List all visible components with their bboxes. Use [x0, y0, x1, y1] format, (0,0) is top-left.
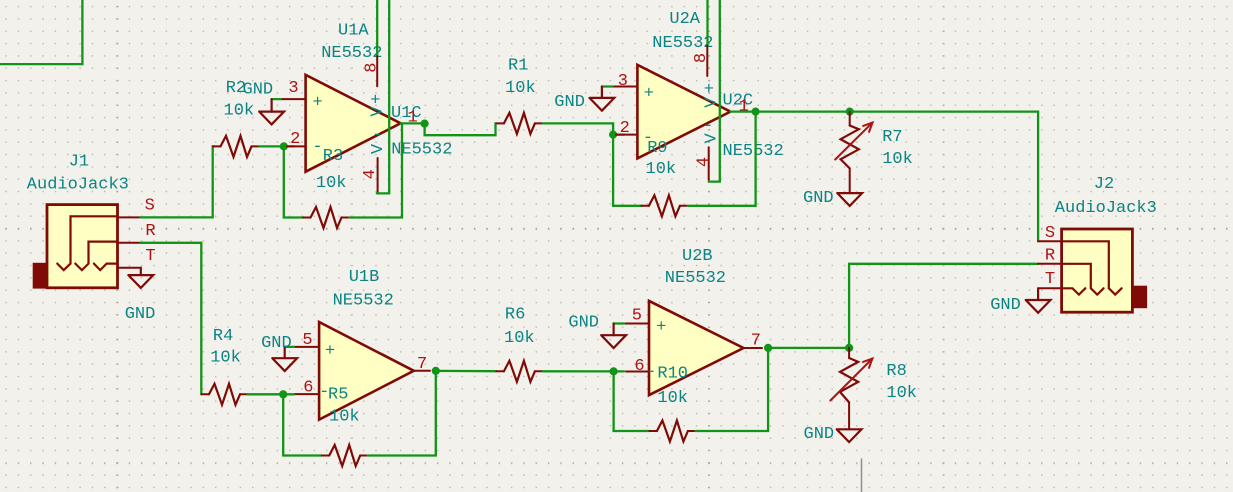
svg-text:GND: GND — [554, 93, 585, 112]
J2 pin T — [1038, 287, 1062, 289]
svg-text:GND: GND — [803, 189, 834, 208]
ground at R8 — [837, 429, 862, 442]
svg-text:1: 1 — [738, 97, 748, 116]
wire R9 to U2A output — [688, 112, 756, 206]
wire J1-R to R4 — [141, 243, 202, 394]
J1 pin S — [118, 216, 141, 218]
svg-text:GND: GND — [261, 334, 292, 353]
svg-text:3: 3 — [618, 72, 628, 91]
svg-text:R5: R5 — [328, 386, 348, 405]
svg-text:-: - — [312, 138, 322, 157]
ground at U2B pin 5 — [612, 324, 614, 336]
svg-text:R: R — [145, 222, 155, 241]
J1 ring contact R — [75, 242, 117, 271]
ground at J1 pin T — [140, 268, 142, 275]
U1B pin 5 (+) — [294, 346, 319, 348]
svg-text:-: - — [372, 126, 382, 145]
svg-text:10k: 10k — [657, 389, 688, 408]
wire V+ rail into U1C pin 8 — [376, 0, 378, 56]
svg-text:2: 2 — [620, 119, 630, 138]
wire U1B output to R6 — [436, 370, 496, 373]
svg-text:1: 1 — [407, 109, 417, 128]
svg-text:NE5532: NE5532 — [665, 269, 726, 288]
node at U1A pin 2 — [280, 142, 288, 150]
resistor R2 — [213, 145, 221, 147]
svg-text:-: - — [703, 117, 713, 136]
svg-text:R6: R6 — [505, 306, 525, 325]
wire top-left corner segment — [0, 0, 82, 64]
svg-text:GND: GND — [568, 314, 599, 333]
wire U1B pin6 node down to R5 — [283, 394, 322, 455]
resistor R10 — [649, 430, 657, 432]
wire U1A output — [401, 122, 425, 124]
J2 sleeve contact T — [1062, 288, 1086, 294]
U1C pin 8 — [376, 56, 378, 86]
node at U1A output — [421, 120, 429, 128]
op-amp U2A — [637, 65, 730, 159]
svg-text:GND: GND — [990, 296, 1021, 315]
R8 bottom lead — [848, 402, 850, 429]
svg-text:NE5532: NE5532 — [723, 142, 784, 161]
svg-text:6: 6 — [634, 357, 644, 376]
svg-text:U2A: U2A — [669, 10, 700, 29]
svg-text:R1: R1 — [508, 57, 528, 76]
ground at J2 pin T — [1037, 288, 1039, 300]
svg-text:GND: GND — [125, 305, 156, 324]
svg-text:J1: J1 — [69, 152, 89, 171]
svg-text:U1B: U1B — [349, 268, 380, 287]
wire R6 to U2B pin6 — [543, 370, 624, 372]
R8 top lead — [848, 348, 850, 358]
U2C pin 4 — [708, 147, 710, 180]
resistor R5 — [322, 455, 330, 457]
connector J2 sleeve block — [1132, 286, 1146, 308]
svg-text:S: S — [1045, 224, 1055, 243]
U1B output pin — [414, 370, 430, 372]
svg-text:R3: R3 — [323, 147, 343, 166]
U2B pin 5 (+) — [624, 323, 649, 325]
op-amp U2B — [649, 301, 744, 395]
R7 top lead — [849, 112, 851, 126]
node at U2A output — [752, 108, 760, 116]
wire J1-S to R2 — [141, 146, 215, 217]
svg-text:4: 4 — [694, 157, 713, 167]
wire R8 tap up to J2 R — [849, 264, 1038, 348]
svg-text:J2: J2 — [1094, 175, 1114, 194]
svg-text:-: - — [646, 363, 656, 382]
svg-text:+: + — [312, 94, 322, 113]
svg-text:10k: 10k — [224, 102, 255, 121]
U1B pin 6 (-) — [294, 393, 319, 395]
wire U2A output to J2 S — [756, 112, 1039, 242]
U1A pin 2 (-) — [287, 145, 306, 147]
svg-text:6: 6 — [303, 379, 313, 398]
connector J1 body — [47, 205, 118, 288]
svg-text:+: + — [325, 342, 335, 361]
svg-text:T: T — [1045, 270, 1055, 289]
wire R3 to U1A output — [350, 123, 403, 217]
resistor R9 — [641, 205, 649, 207]
J1 tip contact S — [57, 216, 117, 270]
resistor R1 — [496, 122, 504, 124]
svg-text:U1A: U1A — [338, 22, 369, 41]
wire R5 to U1B output — [368, 371, 436, 456]
svg-text:NE5532: NE5532 — [321, 44, 382, 63]
svg-text:U2B: U2B — [682, 247, 713, 266]
ground stub wire at U1B pin5 — [285, 346, 294, 348]
node at U2B output — [764, 344, 772, 352]
wire R2 to U1A pin2 — [260, 145, 295, 147]
R7 bottom lead — [849, 168, 851, 193]
wire V- rail to U1C pin 4 — [377, 0, 389, 193]
svg-text:3: 3 — [288, 79, 298, 98]
potentiometer R8 — [840, 358, 858, 402]
ground at U1B pin 5 — [284, 347, 286, 358]
svg-text:R9: R9 — [647, 139, 667, 158]
ground stub wire at U2B pin5 — [614, 322, 624, 324]
svg-text:10k: 10k — [329, 408, 360, 427]
ground stub wire at U1A pin3 — [272, 98, 281, 100]
svg-text:R8: R8 — [886, 362, 906, 381]
svg-text:T: T — [145, 247, 155, 266]
svg-text:10k: 10k — [882, 150, 913, 169]
svg-text:AudioJack3: AudioJack3 — [1055, 199, 1157, 218]
wire R4 to U1B pin6 — [248, 393, 295, 395]
ground at U1A pin 3 — [271, 99, 273, 112]
svg-text:NE5532: NE5532 — [652, 34, 713, 53]
node at U2A pin 2 — [609, 131, 617, 139]
wire U2A output — [730, 110, 755, 112]
wire R1 to U2A pin2 — [543, 123, 624, 134]
svg-text:5: 5 — [632, 306, 642, 325]
svg-text:8: 8 — [692, 53, 711, 63]
svg-text:R: R — [1045, 247, 1055, 266]
J2 tip contact S — [1062, 241, 1122, 294]
U2A pin 3 (+) — [612, 86, 637, 88]
svg-text:AudioJack3: AudioJack3 — [27, 175, 129, 194]
J2 pin R — [1038, 263, 1062, 265]
svg-text:10k: 10k — [646, 160, 677, 179]
U2A pin 2 (-) — [616, 134, 637, 136]
svg-text:V: V — [368, 106, 387, 117]
svg-text:R10: R10 — [657, 365, 688, 384]
svg-text:2: 2 — [290, 130, 300, 149]
J2 ring contact R — [1062, 264, 1104, 295]
J1 pin R — [118, 242, 141, 244]
svg-text:NE5532: NE5532 — [391, 141, 452, 160]
op-amp U1B — [319, 322, 414, 420]
svg-text:GND: GND — [804, 425, 835, 444]
node at U2B pin 6 — [610, 367, 618, 375]
connector J2 body — [1062, 229, 1133, 312]
node at R7 tap — [846, 108, 854, 116]
svg-text:8: 8 — [363, 63, 382, 73]
wire V+ rail into U2C pin 8 — [706, 0, 708, 46]
ground at R7 — [837, 193, 862, 206]
R7 wiper arrow — [835, 123, 872, 160]
J2 pin S — [1038, 240, 1062, 242]
svg-text:10k: 10k — [505, 79, 536, 98]
U2B pin 6 (-) — [626, 371, 649, 373]
ground stub wire at U2A pin3 — [602, 85, 613, 87]
svg-text:V: V — [702, 133, 721, 144]
U2C pin 8 — [706, 46, 708, 76]
svg-text:10k: 10k — [504, 329, 535, 348]
svg-text:S: S — [145, 197, 155, 216]
connector J1 sleeve block — [33, 263, 47, 288]
J1 pin T — [118, 267, 141, 269]
svg-text:10k: 10k — [316, 174, 347, 193]
ground at U2A pin 3 — [601, 87, 603, 98]
op-amp U1A — [306, 75, 401, 172]
wire U2A pin2 node down to R9 — [613, 135, 642, 206]
wire U1A output to R1 — [425, 123, 496, 135]
svg-text:+: + — [644, 85, 654, 104]
node at U1B pin 6 — [279, 390, 287, 398]
wire R10 to U2B output — [695, 348, 768, 431]
node at R8 tap — [845, 344, 853, 352]
svg-text:R7: R7 — [882, 128, 902, 147]
J1 sleeve contact T — [94, 264, 118, 271]
resistor R4 — [202, 393, 210, 395]
potentiometer R7 — [841, 126, 859, 169]
svg-text:NE5532: NE5532 — [333, 291, 394, 310]
wire U2B pin6 node down to R10 — [614, 371, 650, 431]
svg-text:5: 5 — [302, 331, 312, 350]
U2B output pin — [744, 347, 763, 349]
node at U1B output — [432, 367, 440, 375]
svg-text:R4: R4 — [213, 327, 233, 346]
resistor R3 — [303, 217, 311, 219]
svg-text:+: + — [704, 80, 714, 99]
stray vertical mark — [861, 459, 863, 492]
svg-text:10k: 10k — [210, 348, 241, 367]
svg-text:GND: GND — [243, 80, 274, 99]
wire U2B output to R8 tap — [768, 347, 849, 349]
wire V- rail to U2C pin 4 — [709, 0, 720, 182]
svg-text:10k: 10k — [886, 384, 917, 403]
R8 wiper arrow — [830, 359, 872, 401]
wire U1A pin2 node down to R3 — [284, 146, 304, 217]
svg-text:+: + — [656, 318, 666, 337]
resistor R6 — [496, 370, 504, 372]
U1C pin 4 — [377, 158, 379, 193]
U1A pin 3 (+) — [281, 98, 306, 100]
svg-text:V: V — [369, 143, 388, 154]
svg-text:V: V — [702, 97, 721, 108]
